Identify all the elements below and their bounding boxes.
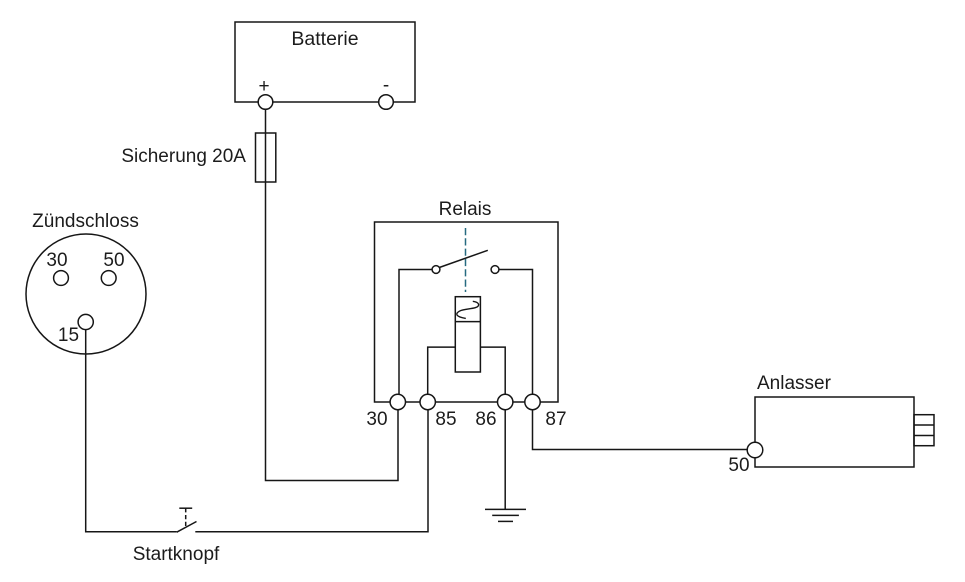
wire battery + through fuse to relay terminal 30 [266, 102, 399, 481]
fuse F (Sicherung 20A) body [256, 133, 276, 182]
battery - terminal circle [379, 95, 394, 110]
svg-text:30: 30 [46, 250, 67, 271]
svg-text:Sicherung 20A: Sicherung 20A [121, 146, 246, 167]
relay coil divider line [455, 321, 480, 323]
ground symbol [485, 509, 526, 521]
starter shaft connector block [914, 415, 934, 446]
relay actuation dashed line [465, 228, 467, 292]
relay coil body [455, 297, 480, 372]
ignition switch pin 15 contact circle [78, 314, 93, 329]
wire ignition pin 15 to start button [86, 322, 177, 532]
svg-text:50: 50 [103, 250, 124, 271]
svg-text:50: 50 [728, 455, 749, 476]
wire relay terminal 86 to ground [504, 402, 506, 509]
wire relay coil to terminal 86 [480, 347, 505, 402]
svg-text:Zündschloss: Zündschloss [32, 211, 139, 232]
start button switch blade [177, 522, 197, 533]
wire relay right contact to terminal 87 [499, 270, 533, 403]
relay coil winding squiggle [457, 301, 479, 318]
starter (Anlasser) box [755, 397, 914, 467]
relay right contact circle [491, 266, 499, 274]
ignition switch pin 50 contact circle [101, 271, 116, 286]
svg-text:Startknopf: Startknopf [133, 544, 220, 565]
wire relay left contact to terminal 30 [399, 270, 432, 403]
ignition switch (Zündschloss) body circle [26, 234, 146, 354]
svg-text:15: 15 [58, 325, 79, 346]
wire relay coil to terminal 85 [428, 347, 456, 402]
relay terminal 87 circle [525, 394, 540, 409]
relay terminal 30 circle [390, 394, 405, 409]
relay left contact circle [432, 266, 440, 274]
relay terminal 86 circle [498, 394, 513, 409]
svg-text:86: 86 [475, 409, 496, 430]
relay switch blade [439, 250, 488, 267]
svg-text:30: 30 [366, 409, 387, 430]
svg-text:85: 85 [435, 409, 456, 430]
svg-text:Batterie: Batterie [291, 28, 358, 50]
svg-text:87: 87 [545, 409, 566, 430]
svg-text:Relais: Relais [439, 199, 492, 220]
wire relay terminal 87 to starter terminal 50 [533, 402, 756, 450]
relay terminal 85 circle [420, 394, 435, 409]
ignition switch pin 30 contact circle [54, 271, 69, 286]
start button actuator dashed link [185, 508, 187, 527]
battery + terminal circle [258, 95, 273, 110]
svg-text:+: + [258, 76, 269, 97]
starter terminal 50 circle [747, 442, 763, 458]
start button (Startknopf) actuator T-bar [179, 507, 192, 509]
battery (Batterie) box [235, 22, 415, 102]
wire start button to relay terminal 85 [195, 402, 428, 532]
svg-text:-: - [383, 75, 389, 96]
relay (Relais) box [375, 222, 559, 402]
svg-text:Anlasser: Anlasser [757, 373, 832, 394]
